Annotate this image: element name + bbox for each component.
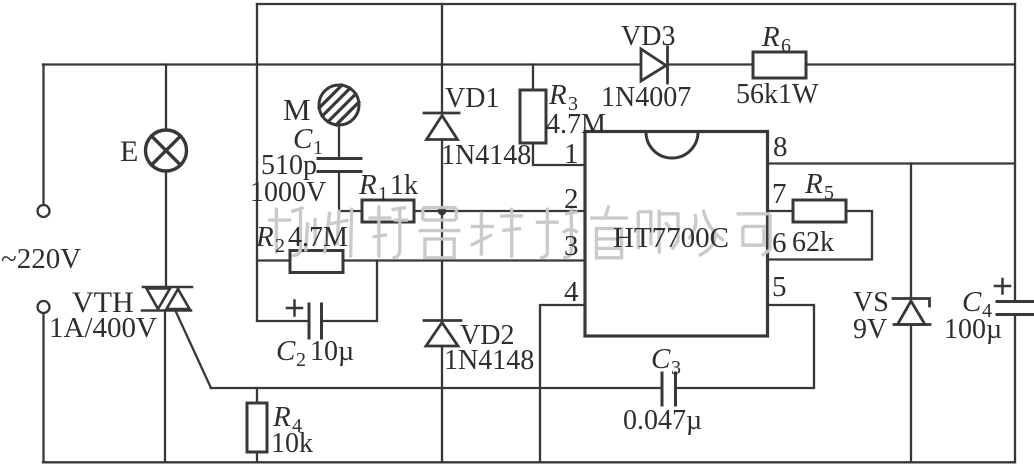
op-amp U1 HT7700C body	[585, 132, 768, 337]
svg-text:R: R	[255, 221, 274, 253]
wire C1 to R1	[339, 172, 362, 211]
svg-text:2: 2	[296, 349, 306, 371]
svg-text:10k: 10k	[271, 428, 313, 459]
microphone M	[319, 85, 359, 125]
wire top border	[257, 3, 1015, 5]
svg-text:~220V: ~220V	[1, 243, 81, 275]
C4 polarity plus	[995, 279, 1010, 294]
wire lamp to triac	[165, 171, 167, 287]
zener VS	[893, 299, 930, 325]
svg-text:1: 1	[378, 183, 388, 205]
resistor R4	[247, 403, 267, 452]
svg-text:2: 2	[275, 235, 285, 257]
svg-text:100µ: 100µ	[944, 314, 1002, 345]
wire triac gate diagonal	[176, 312, 211, 388]
svg-text:VD3: VD3	[621, 21, 675, 52]
resistor R3	[520, 90, 546, 143]
wire R3 to pin1	[533, 143, 584, 165]
C2 polarity plus	[287, 301, 302, 316]
svg-text:6: 6	[781, 35, 791, 57]
svg-text:1: 1	[564, 138, 579, 170]
svg-text:R: R	[761, 21, 780, 53]
wire VS lower lead	[910, 325, 912, 463]
node junction dot	[438, 207, 447, 216]
wire VD1 to junction	[441, 140, 443, 212]
svg-text:R: R	[804, 168, 823, 200]
svg-text:VD1: VD1	[445, 83, 499, 114]
capacitor C4	[997, 302, 1034, 315]
resistor R5	[793, 200, 846, 222]
wire AC input lower lead	[42, 313, 44, 462]
wire R4 bottom lead	[256, 452, 258, 462]
wire R5 to pin6 loop	[768, 211, 872, 260]
svg-text:7: 7	[772, 178, 787, 210]
wire right border vertical lower	[1014, 315, 1016, 462]
svg-text:5: 5	[772, 271, 787, 303]
wire C2 left lead	[257, 320, 309, 322]
resistor R1	[362, 200, 414, 222]
wire main top horizontal	[43, 63, 1015, 65]
svg-text:C: C	[651, 343, 671, 375]
resistor R2	[290, 251, 343, 273]
svg-text:4: 4	[564, 276, 579, 308]
wire R1 to pin2	[414, 210, 584, 212]
svg-text:1N4148: 1N4148	[444, 345, 534, 376]
svg-text:M: M	[283, 92, 311, 127]
lamp E	[146, 130, 187, 171]
IC notch	[646, 132, 698, 158]
node lower input terminal	[38, 301, 50, 313]
wire left border vertical	[256, 4, 258, 321]
svg-text:R: R	[548, 79, 567, 111]
svg-text:R: R	[358, 169, 377, 201]
svg-text:4.7M: 4.7M	[546, 109, 606, 140]
wire AC input upper lead	[42, 65, 44, 206]
svg-text:9V: 9V	[853, 314, 887, 345]
diode VD1	[424, 113, 459, 140]
wire pin4 lead	[540, 305, 584, 462]
svg-text:6: 6	[772, 227, 787, 259]
svg-text:1A/400V: 1A/400V	[49, 312, 157, 344]
wire lamp branch upper	[165, 65, 167, 131]
svg-text:1000V: 1000V	[250, 177, 326, 208]
wire bottom border	[43, 461, 1015, 463]
svg-text:2: 2	[564, 183, 579, 215]
watermark 杭州将睿科技有限公司	[268, 205, 770, 257]
wire triac lower	[164, 311, 166, 463]
svg-text:1k: 1k	[390, 170, 418, 201]
svg-text:C: C	[276, 335, 296, 367]
wire vertical VD line top	[441, 4, 443, 112]
svg-text:HT7700C: HT7700C	[613, 222, 729, 254]
svg-text:8: 8	[773, 131, 788, 163]
capacitor C3	[662, 373, 676, 405]
svg-text:10µ: 10µ	[310, 336, 354, 367]
svg-text:E: E	[120, 135, 138, 168]
wire pin3 horizontal with R2	[257, 259, 584, 261]
svg-text:1N4148: 1N4148	[441, 140, 531, 171]
resistor R5 wire pin7	[768, 210, 793, 212]
wire VS upper lead	[910, 164, 912, 299]
svg-text:4.7M: 4.7M	[288, 222, 348, 253]
wire C3 to pin5 riser	[676, 305, 815, 388]
triac VTH	[142, 287, 192, 311]
svg-text:1N4007: 1N4007	[601, 82, 691, 113]
wire junction to VD2	[441, 211, 443, 319]
node upper input terminal	[38, 205, 50, 217]
svg-text:5: 5	[824, 182, 834, 204]
svg-text:0.047µ: 0.047µ	[623, 405, 702, 436]
wire gate line to C3	[211, 387, 661, 389]
capacitor C2	[309, 304, 322, 338]
wire VD2 to bottom	[441, 346, 443, 462]
svg-text:56k1W: 56k1W	[736, 79, 819, 110]
capacitor C1	[318, 159, 361, 172]
resistor R6	[753, 52, 806, 78]
diode VD2	[424, 321, 461, 347]
wire pin8 to right border	[768, 162, 1015, 164]
wire right border vertical upper	[1014, 4, 1016, 301]
svg-text:3: 3	[671, 357, 681, 379]
svg-text:62k: 62k	[792, 227, 834, 258]
wire M to C1	[338, 125, 340, 158]
wire C2 right lead riser	[322, 261, 378, 322]
wire R4 top lead	[256, 388, 258, 403]
wire R3 top lead	[532, 65, 534, 91]
diode VD3	[641, 47, 668, 83]
svg-text:3: 3	[564, 230, 579, 262]
